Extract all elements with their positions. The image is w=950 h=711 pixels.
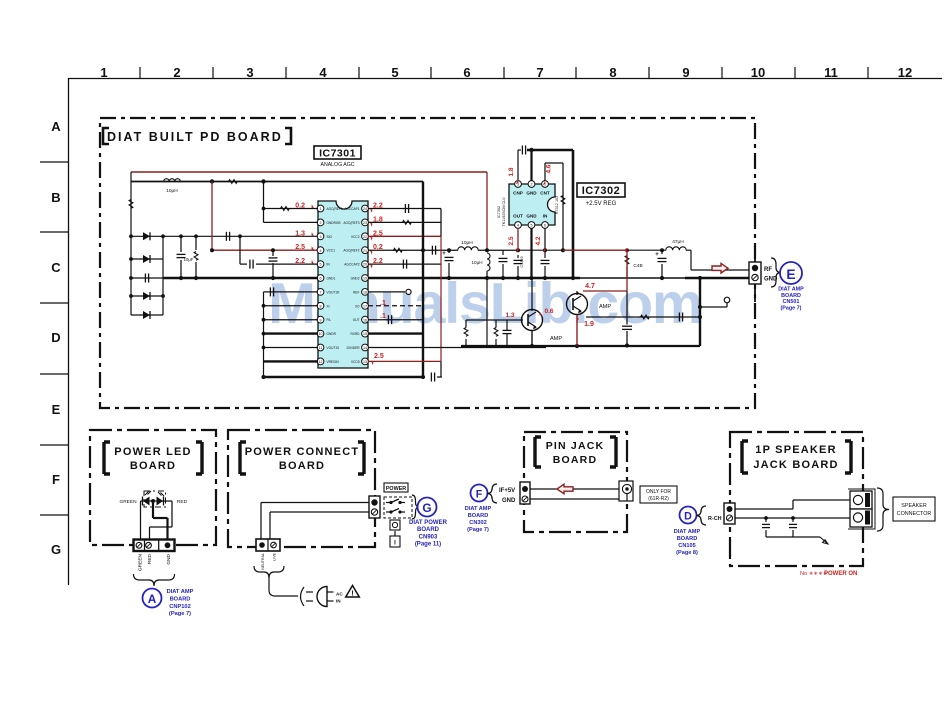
svg-text:1P SPEAKER: 1P SPEAKER	[755, 444, 837, 456]
capacitor C top IC7302	[521, 146, 523, 155]
svg-text:XO: XO	[355, 304, 360, 308]
svg-text:4: 4	[319, 65, 327, 80]
capacitor C+ mid	[447, 248, 451, 252]
IC7301 pin 14	[362, 344, 369, 351]
label ONLY FOR 61R-R2	[640, 486, 677, 503]
label IC7301	[314, 146, 361, 159]
svg-text:IF+5V: IF+5V	[499, 488, 515, 494]
svg-text:4.7: 4.7	[585, 283, 595, 290]
svg-text:AMP: AMP	[550, 336, 562, 342]
svg-text:2.5: 2.5	[374, 353, 384, 360]
svg-text:CN302: CN302	[469, 520, 486, 526]
ruler top line	[68, 78, 942, 80]
svg-text:DIAT POWER: DIAT POWER	[409, 520, 448, 526]
wire amp mid	[544, 278, 546, 290]
svg-text:21: 21	[363, 249, 367, 253]
svg-text:22: 22	[363, 235, 367, 239]
wire ladder vertical	[162, 236, 164, 315]
resistor R C4B	[625, 256, 629, 265]
wire red 4.7 branch	[626, 250, 628, 291]
svg-text:IC7302: IC7302	[497, 206, 501, 218]
svg-text:GND: GND	[526, 214, 537, 219]
node F DIAT AMP BOARD CN302	[471, 485, 488, 502]
svg-text:(Page 7): (Page 7)	[169, 611, 191, 617]
svg-text:10μH: 10μH	[461, 240, 473, 246]
svg-text:10: 10	[751, 65, 765, 80]
board outline DIAT BUILT PD BOARD	[100, 118, 755, 408]
wire pin16 OUT	[368, 319, 423, 321]
wire bottom bus thick	[264, 376, 425, 379]
svg-text:3: 3	[320, 235, 322, 239]
wire Q2 emitter down red	[576, 315, 578, 347]
wire corner to RF	[690, 250, 692, 270]
wire red pin22 VCC2	[368, 235, 441, 237]
svg-text:14: 14	[363, 346, 367, 350]
svg-text:GND1: GND1	[327, 277, 336, 281]
svg-text:11: 11	[824, 65, 838, 80]
wire IC7302 pin3 up	[517, 150, 519, 180]
svg-text:0.6: 0.6	[544, 308, 553, 315]
capacitor C7319 0.1	[517, 255, 519, 258]
IC7301 pin 18	[362, 289, 369, 296]
IC7301 pin 2	[317, 219, 324, 226]
svg-text:G: G	[51, 542, 61, 557]
wire gnd led thick	[152, 501, 154, 518]
led dashed box	[144, 491, 166, 507]
svg-text:BOARD: BOARD	[468, 513, 489, 519]
svg-text:(Page 8): (Page 8)	[676, 550, 698, 556]
brace speaker	[877, 488, 889, 531]
wire red vcc1 branch	[211, 182, 213, 251]
board outline 1P SPEAKER JACK BOARD	[730, 432, 863, 566]
svg-text:D: D	[51, 330, 60, 345]
svg-text:10μF: 10μF	[184, 257, 194, 262]
wire red pin13 VCC5	[368, 360, 441, 362]
wire pin10 thick	[264, 332, 319, 334]
wire IC7302 pin5 gnd down thick	[530, 228, 532, 278]
svg-text:GND: GND	[502, 498, 516, 504]
resistor R amp1	[495, 320, 497, 331]
chassis gnd arrow	[820, 537, 828, 544]
svg-text:CONNECTOR: CONNECTOR	[897, 511, 932, 517]
title DIAT BUILT PD BOARD	[103, 128, 291, 144]
IC7301 pin 3	[317, 233, 324, 240]
svg-text:CN501: CN501	[783, 299, 800, 305]
svg-text:CN903: CN903	[419, 534, 438, 540]
svg-text:4: 4	[320, 249, 322, 253]
svg-text:REF: REF	[353, 290, 359, 294]
svg-text:1.9: 1.9	[584, 321, 594, 328]
wire Q2 emitter net	[586, 316, 700, 318]
svg-text:1.3: 1.3	[505, 312, 514, 319]
svg-text:RXRD: RXRD	[350, 332, 360, 336]
board outline POWER CONNECT BOARD	[228, 430, 375, 547]
svg-text:DIAT AMP: DIAT AMP	[167, 589, 194, 595]
svg-text:DIVIDER: DIVIDER	[347, 346, 361, 350]
AC plug	[301, 587, 305, 606]
board outline POWER LED BOARD	[90, 430, 216, 545]
svg-text:VOUT15: VOUT15	[327, 346, 340, 350]
svg-text:C4B: C4B	[633, 263, 642, 269]
warning triangle	[346, 586, 360, 598]
ruler ticks top	[139, 67, 141, 79]
svg-text:VREGIN: VREGIN	[327, 360, 340, 364]
svg-text:GREEN: GREEN	[119, 499, 137, 505]
svg-text:FIL: FIL	[327, 318, 332, 322]
svg-text:XI: XI	[327, 304, 330, 308]
svg-text:AGC(REF1: AGC(REF1	[327, 207, 343, 211]
svg-text:VCC5: VCC5	[351, 360, 360, 364]
svg-text:CNP102: CNP102	[169, 604, 191, 610]
wire pin14 DIVIDER	[368, 347, 546, 349]
wire pin7	[264, 291, 319, 293]
diode D2 row	[131, 258, 163, 260]
title POWER CONNECT BOARD	[240, 442, 246, 474]
wire pin20 row	[368, 263, 441, 265]
resistor R amp net	[641, 315, 650, 319]
switch contacts	[386, 502, 391, 504]
LED green	[142, 497, 144, 506]
svg-text:PIN JACK: PIN JACK	[546, 440, 605, 452]
pin jack	[619, 481, 633, 501]
brace AC	[254, 566, 284, 578]
capacitor C amp net	[678, 313, 680, 322]
svg-text:5: 5	[531, 224, 533, 228]
IC7301 pin 23	[362, 219, 369, 226]
svg-text:NEUTRAL: NEUTRAL	[261, 553, 265, 570]
node D DIAT AMP BOARD CN105	[680, 507, 697, 524]
label SPEAKER CONNECTOR	[893, 497, 935, 521]
svg-text:10: 10	[319, 332, 323, 336]
IC7301 pin 11	[317, 344, 324, 351]
svg-text:GREEN: GREEN	[138, 553, 144, 571]
wire pin8	[264, 305, 319, 307]
svg-text:GNDR: GNDR	[327, 332, 337, 336]
wire red IC7302 pin4 OUT	[517, 228, 519, 250]
IC7301 pin 1	[317, 205, 324, 212]
svg-text:CNT: CNT	[540, 191, 550, 196]
red arrow left	[557, 484, 573, 494]
svg-text:6: 6	[320, 277, 322, 281]
transistor Q1	[522, 310, 543, 331]
switch box	[384, 497, 412, 518]
capacitor C amp out bottom	[626, 291, 628, 325]
board outline PIN JACK BOARD	[524, 432, 627, 532]
connector AC	[256, 539, 280, 551]
svg-text:20: 20	[363, 263, 367, 267]
svg-text:POWER LED: POWER LED	[114, 446, 191, 458]
wire IC7302 pin6 IN	[544, 228, 546, 250]
connector CN RF	[749, 262, 761, 284]
IC7301 pin 17	[362, 302, 369, 309]
svg-text:(Page 7): (Page 7)	[781, 305, 802, 311]
svg-text:12: 12	[319, 360, 323, 364]
connector CN105	[724, 503, 735, 524]
brace A	[134, 574, 175, 586]
svg-text:+2.5V REG: +2.5V REG	[586, 201, 617, 207]
svg-text:2: 2	[173, 65, 180, 80]
capacitor C bottom bus	[430, 373, 432, 382]
wire vertical x423 thick	[422, 182, 424, 378]
wire to plug	[268, 578, 270, 590]
wire vertical x441	[440, 209, 442, 237]
wire pin9	[264, 319, 319, 321]
wire Q1 base left	[466, 319, 523, 321]
svg-text:VCC2: VCC2	[351, 235, 360, 239]
svg-text:RED: RED	[177, 499, 188, 505]
wire pin1 branch	[263, 182, 265, 223]
svg-text:IC7301: IC7301	[319, 148, 356, 160]
svg-text:17: 17	[363, 304, 367, 308]
diode D3 row	[131, 295, 163, 297]
svg-text:OUT: OUT	[513, 214, 523, 219]
svg-text:(Page 11): (Page 11)	[415, 542, 441, 548]
wire pin23 row	[368, 221, 441, 223]
IC7301 pin 6	[317, 275, 324, 282]
svg-text:10μH: 10μH	[471, 260, 482, 265]
svg-text:OUT: OUT	[353, 318, 360, 322]
svg-text:4.2: 4.2	[535, 236, 542, 245]
wire green led	[140, 501, 142, 540]
svg-text:10μH: 10μH	[166, 188, 178, 194]
wire pin21 row	[368, 249, 455, 251]
title PIN JACK BOARD	[535, 437, 541, 467]
svg-text:9: 9	[320, 318, 322, 322]
capacitor C sp2	[791, 516, 795, 520]
svg-text:DIAT BUILT PD BOARD: DIAT BUILT PD BOARD	[107, 130, 283, 144]
svg-text:23: 23	[363, 221, 367, 225]
svg-text:BOARD: BOARD	[553, 454, 598, 466]
svg-text:19: 19	[363, 277, 367, 281]
svg-text:E: E	[786, 267, 795, 282]
title POWER LED BOARD	[104, 442, 110, 474]
node E DIAT AMP BOARD CN501	[780, 262, 802, 284]
svg-text:R-CH: R-CH	[708, 516, 722, 522]
wire pin24 row	[368, 208, 441, 210]
svg-text:1: 1	[320, 207, 322, 211]
svg-text:1.8: 1.8	[508, 167, 515, 176]
svg-text:13: 13	[363, 360, 367, 364]
junction dots ladder	[129, 234, 133, 238]
svg-text:8: 8	[320, 304, 322, 308]
svg-text:47μH: 47μH	[672, 239, 684, 245]
svg-text:12: 12	[898, 65, 912, 80]
svg-text:VCC1: VCC1	[327, 249, 336, 253]
svg-text:G: G	[422, 501, 431, 515]
svg-text:+: +	[655, 252, 659, 258]
wire Q1 down	[531, 331, 533, 347]
svg-text:SPEAKER: SPEAKER	[901, 503, 927, 509]
wire bus lower-left vertical	[263, 292, 265, 377]
svg-text:GND: GND	[166, 553, 172, 564]
IC7301 pin 16	[362, 316, 369, 323]
IC7301 pin 8	[317, 302, 324, 309]
capacitor C row3	[131, 277, 180, 279]
svg-text:IC7302: IC7302	[582, 185, 620, 197]
svg-text:6: 6	[544, 224, 546, 228]
svg-text:BOARD: BOARD	[417, 527, 440, 533]
svg-text:4: 4	[517, 224, 519, 228]
svg-text:24: 24	[363, 207, 367, 211]
svg-text:18: 18	[363, 291, 367, 295]
label POWER	[384, 483, 408, 492]
wire left rail vertical	[130, 172, 132, 315]
svg-text:D: D	[684, 511, 692, 523]
svg-text:POWER CONNECT: POWER CONNECT	[245, 446, 360, 458]
op-amp IC7301 body	[318, 201, 368, 368]
svg-text:VOUT1R: VOUT1R	[327, 290, 341, 294]
junction dots gnd bus left	[179, 276, 183, 280]
svg-text:5: 5	[391, 65, 398, 80]
title 1P SPEAKER JACK BOARD	[742, 441, 748, 473]
svg-text:6: 6	[463, 65, 470, 80]
wire red vertical x441	[440, 236, 442, 361]
brace G	[412, 495, 419, 519]
svg-text:7: 7	[536, 65, 543, 80]
open terminal	[724, 297, 730, 303]
wire amp box bottom	[461, 345, 700, 347]
svg-text:F: F	[52, 472, 60, 487]
svg-text:A: A	[148, 592, 157, 606]
svg-text:GND2: GND2	[351, 277, 360, 281]
capacitor C amp1	[503, 329, 512, 331]
svg-text:DIAT AMP: DIAT AMP	[674, 529, 701, 535]
capacitor C filter1	[180, 236, 182, 252]
diode D1 row	[131, 235, 318, 237]
node G DIAT POWER BOARD CN903	[418, 498, 437, 517]
wire gnd sp	[766, 536, 820, 538]
wire gnd bus right thick	[368, 277, 580, 280]
svg-text:RF: RF	[764, 267, 772, 273]
svg-text:2: 2	[320, 221, 322, 225]
speaker outline	[848, 489, 875, 529]
lamp symbol	[390, 520, 400, 530]
svg-text:8: 8	[609, 65, 616, 80]
IC7301 pin 22	[362, 233, 369, 240]
wire pin5 IN row	[239, 236, 241, 264]
brace E	[771, 258, 781, 287]
svg-text:RED: RED	[147, 553, 153, 564]
svg-text:BOARD: BOARD	[279, 460, 325, 472]
svg-text:AGCCAP1: AGCCAP1	[344, 207, 359, 211]
svg-text:BOARD: BOARD	[170, 596, 191, 602]
capacitor C pin6 down	[541, 259, 550, 261]
inductor L 10uH top	[164, 179, 181, 182]
svg-text:AGC(REF2: AGC(REF2	[343, 249, 359, 253]
ruler left line	[68, 78, 70, 585]
wire top thick to x573	[527, 149, 573, 152]
svg-text:9: 9	[682, 65, 689, 80]
svg-text:CN105: CN105	[678, 543, 695, 549]
diode D4 row	[131, 314, 163, 316]
node top rail	[261, 179, 265, 183]
IC7301 pin 5	[317, 261, 324, 268]
svg-text:11: 11	[319, 346, 323, 350]
wire top rail black	[131, 181, 423, 183]
IC7301 pin 20	[362, 261, 369, 268]
svg-text:DIAT AMP: DIAT AMP	[465, 506, 492, 512]
wire amp box left	[486, 278, 488, 346]
wire power lines	[261, 502, 369, 504]
svg-text:.1: .1	[380, 313, 386, 320]
svg-text:A: A	[51, 119, 61, 134]
IC7301 pin 13	[362, 358, 369, 365]
svg-text:1: 1	[100, 65, 107, 80]
svg-text:CNP: CNP	[513, 191, 523, 196]
svg-text:JACK BOARD: JACK BOARD	[753, 459, 838, 471]
wire rail to 47uH	[627, 249, 666, 251]
svg-text:BOARD: BOARD	[130, 460, 176, 472]
svg-text:7: 7	[320, 291, 322, 295]
capacitor C vcc1 bypass	[271, 248, 275, 252]
transistor Q2	[567, 294, 588, 315]
svg-text:AMP: AMP	[599, 304, 611, 310]
svg-text:ANALOG AGC: ANALOG AGC	[320, 162, 354, 168]
label IC7302	[577, 183, 625, 197]
wire amp box right thick	[699, 278, 701, 346]
svg-text:3: 3	[246, 65, 253, 80]
LED red	[163, 497, 165, 506]
inductor L 47uH	[666, 247, 686, 250]
resistor R top rail	[229, 180, 238, 184]
IC7301 pin 12	[317, 358, 324, 365]
wire IC7302 pin1 CNT loop	[544, 163, 546, 181]
capacitor row C	[225, 232, 227, 241]
IC7302 pins top	[515, 181, 522, 188]
IC7301 pin 7	[317, 289, 324, 296]
connector CN302	[520, 482, 530, 504]
wire mid rail to IC7302	[518, 249, 563, 251]
svg-text:IN: IN	[543, 214, 548, 219]
svg-text:IN: IN	[336, 599, 341, 604]
IC7302 pins bottom	[515, 222, 522, 229]
resistor R amp2	[494, 328, 498, 337]
svg-text:BOARD: BOARD	[677, 536, 698, 542]
svg-text:(Page 7): (Page 7)	[467, 527, 489, 533]
regulator IC7302 body	[509, 184, 555, 225]
svg-text:F: F	[476, 489, 483, 501]
svg-text:C: C	[51, 260, 61, 275]
IC7301 pin 21	[362, 247, 369, 254]
svg-text:B: B	[51, 190, 60, 205]
wire IC7302 pin2 gnd up thick	[530, 150, 532, 181]
svg-text:2.5: 2.5	[508, 236, 515, 245]
svg-text:15: 15	[363, 332, 367, 336]
resistor R left rail	[129, 200, 133, 209]
svg-text:LIVE: LIVE	[273, 552, 277, 560]
wire pin17 XO	[368, 305, 423, 307]
speaker jack lower	[850, 509, 872, 527]
wire Q2 top	[576, 291, 578, 295]
inductor L 10uH mid	[455, 249, 458, 251]
wire gnd bus left thick	[163, 277, 318, 280]
IC7301 pin 15	[362, 330, 369, 337]
wire speaker bottom	[735, 517, 852, 519]
wire pin12 thick	[264, 360, 319, 362]
capacitor C sp1	[764, 516, 768, 520]
IC7301 pin 24	[362, 205, 369, 212]
wire red top rail	[131, 171, 487, 173]
svg-text:DIAT AMP: DIAT AMP	[778, 287, 804, 293]
svg-text:POWER: POWER	[386, 486, 406, 492]
node led mid	[151, 499, 155, 503]
svg-text:5: 5	[320, 263, 322, 267]
wire below RF connector	[754, 284, 756, 302]
wire jack lines	[530, 488, 619, 490]
wire pin11	[264, 347, 319, 349]
svg-text:16: 16	[363, 318, 367, 322]
wire led row	[141, 500, 166, 502]
